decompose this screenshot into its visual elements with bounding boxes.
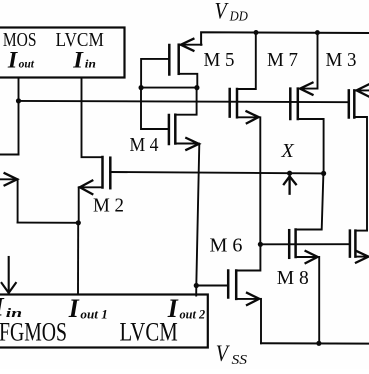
wire: Iout2 into bottom box [195,286,197,296]
transistor M6 [196,244,261,343]
svg-text:I: I [7,48,18,73]
node A: Iout/gate-wire junction [16,98,21,103]
transistor M8 [289,173,323,343]
svg-text:M 4: M 4 [130,134,159,156]
svg-text:I: I [68,294,80,323]
svg-text:M 6: M 6 [210,235,243,257]
VDD rail [201,32,369,45]
node: Iout2 / M6 gate junction [194,283,199,288]
node: M5 drain dot right [194,85,199,90]
wire: M1/M2 sources to Iout1 [18,222,79,224]
svg-text:X: X [281,140,295,162]
VSS rail [261,342,369,344]
transistor M2 [79,157,111,223]
top box FGMOS LVCM (cut at left edge) [0,28,125,78]
node: X / M3 drain / M8 junction [321,171,326,176]
wire: Iout1 down to bottom box [77,223,79,295]
node: M7 source / M8 gate-bus / M6 junction [258,242,263,247]
wire: long gate bus from node A to M-right-upper gate [19,101,349,102]
svg-text:I: I [72,48,84,73]
wire: node X horizontal (M2 gate to M3 drain) [110,172,323,173]
wire: M8 gate bus to right transistor [260,243,350,245]
bottom box FGMOS LVCM [0,295,208,348]
svg-text:M 2: M 2 [93,195,124,217]
svg-text:out 2: out 2 [180,306,206,321]
node: VDD dot for M7 source [254,30,259,35]
svg-text:FGMOS: FGMOS [0,318,67,347]
transistor M3 [290,33,323,174]
transistor M1 (cut at left edge) [0,155,19,223]
svg-text:M 3: M 3 [326,49,357,71]
svg-text:M 7: M 7 [267,49,298,71]
transistor M4 [141,88,199,286]
transistor M7 [230,33,261,245]
node X dot [287,171,292,176]
svg-text:DD: DD [229,9,248,24]
transistor M-right-lower (cut at right edge) [350,231,369,263]
node: VDD dot for M3 source [315,30,320,35]
wire: Iout pin from top box down [18,78,20,155]
node: M5 gate/drain dot left [139,85,144,90]
node: Iout1 junction [76,220,81,225]
svg-text:out: out [19,57,35,71]
transistor M-right-upper (cut at right edge) [349,84,369,230]
wire: diode node between dots [141,87,197,89]
transistor M5 [141,39,201,88]
svg-text:SS: SS [232,353,248,368]
svg-text:M 5: M 5 [204,49,235,71]
wire: Iin pin from top box down to M2 [82,78,103,158]
node: M8 drain on VSS [316,341,321,346]
svg-text:out 1: out 1 [80,306,107,321]
svg-text:M 8: M 8 [277,267,309,289]
svg-text:in: in [85,57,96,71]
svg-text:LVCM: LVCM [120,318,178,347]
arrow: Iin current into bottom box [2,257,16,293]
arrow pointing up at node X [284,176,296,193]
